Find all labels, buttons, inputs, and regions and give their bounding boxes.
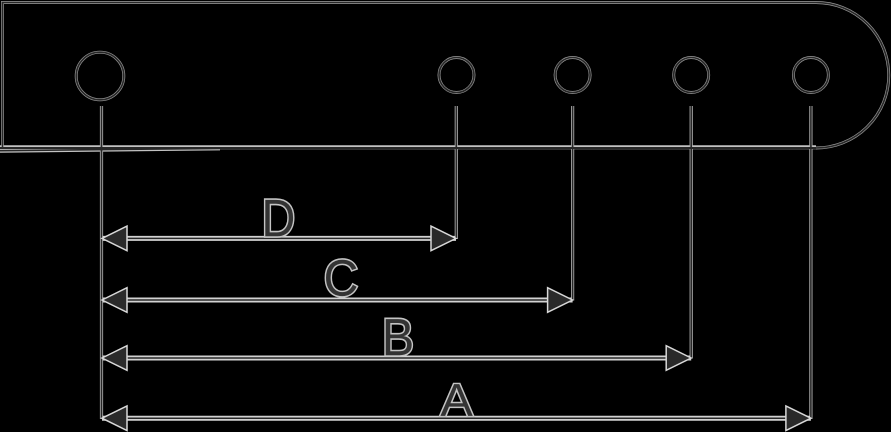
dimension line C bbox=[102, 299, 573, 301]
hole H3 bbox=[555, 58, 590, 93]
arrow C right bbox=[548, 288, 573, 313]
arrow C left bbox=[102, 288, 127, 313]
strap fold line bbox=[0, 148, 220, 150]
extension line from H1 bbox=[101, 106, 103, 419]
extension lines light fringe bbox=[102, 106, 811, 419]
extension line from H5 bbox=[810, 106, 812, 419]
hole H1 bbox=[76, 52, 124, 100]
dimension line B bbox=[102, 357, 691, 359]
arrow A left bbox=[102, 406, 127, 431]
arrow A right bbox=[786, 406, 811, 431]
hole H5 bbox=[793, 58, 828, 93]
dimension line D bbox=[102, 237, 456, 239]
bottom edge + fold light fringe bbox=[0, 147, 816, 151]
arrowheads bbox=[102, 226, 811, 430]
hole H4 bbox=[674, 58, 709, 93]
arrow D right bbox=[431, 226, 456, 251]
arrow B left bbox=[102, 346, 127, 371]
extension line from H2 bbox=[455, 106, 457, 239]
label B bbox=[386, 319, 412, 355]
label C bbox=[326, 260, 357, 296]
label A bbox=[440, 384, 472, 416]
dimension lines dark core bbox=[102, 238, 811, 418]
strap outline bbox=[3, 3, 889, 149]
strap outline light fringe bbox=[3, 3, 889, 149]
extension line from H4 bbox=[690, 106, 692, 359]
strap bottom edge bbox=[0, 147, 816, 149]
arrow B right bbox=[666, 346, 691, 371]
label D bbox=[265, 200, 293, 236]
extension line from H3 bbox=[572, 106, 574, 301]
hole H2 bbox=[439, 58, 474, 93]
dimension lines light fringe bbox=[102, 238, 811, 418]
dimension line A bbox=[102, 417, 811, 419]
arrow D left bbox=[102, 226, 127, 251]
